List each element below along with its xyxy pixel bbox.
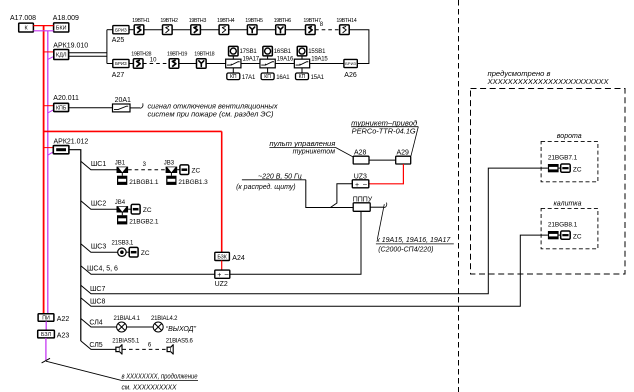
svg-text:“ВЫХОД”: “ВЫХОД” [166, 326, 197, 333]
button 16SB1 [263, 46, 273, 56]
svg-text:КП: КП [230, 74, 237, 80]
svg-text:к 19А15, 19А16, 19А17: к 19А15, 19А16, 19А17 [377, 237, 452, 244]
svg-text:А27: А27 [112, 72, 125, 79]
speaker 21BIAS5.1 [116, 345, 122, 354]
svg-text:БРИЗ: БРИЗ [345, 61, 356, 66]
device 17А1 КП [227, 73, 240, 80]
wire ШС2 [81, 201, 117, 210]
svg-text:JB1: JB1 [115, 161, 126, 167]
wire 19А16-19А15 [275, 63, 294, 65]
svg-text:ZC: ZC [141, 250, 150, 257]
svg-text:19ВТН14: 19ВТН14 [336, 18, 356, 24]
svg-text:21BIAS5.6: 21BIAS5.6 [166, 338, 194, 344]
wire КДЛ-ДПЛС upper stub [69, 52, 107, 54]
device 16А1 КП [261, 73, 274, 80]
underline 220В [242, 179, 306, 181]
svg-text:19ВТН6: 19ВТН6 [274, 18, 292, 24]
svg-text:15А1: 15А1 [311, 75, 325, 81]
detector 19ВТН19 [169, 59, 179, 69]
device А23 БЗЛ [38, 330, 55, 338]
svg-text:БРИЗ: БРИЗ [115, 61, 127, 66]
wire red БЗК-UZ2 [221, 261, 223, 271]
svg-text:19ВТН18: 19ВТН18 [194, 52, 214, 58]
wire JB4-ZC [128, 208, 131, 210]
svg-text:21BGB2.1: 21BGB2.1 [129, 219, 159, 226]
button 17SB1 [229, 46, 239, 56]
svg-text:ШС7: ШС7 [90, 286, 105, 293]
relay module 19А15 [294, 59, 309, 68]
device А17 К [19, 23, 34, 32]
svg-text:КДЛ: КДЛ [56, 53, 67, 59]
underline continuation note [121, 380, 198, 382]
svg-text:19ВТН3: 19ВТН3 [189, 18, 207, 24]
svg-text:21SB3.1: 21SB3.1 [112, 241, 134, 247]
device А18 БКИ [54, 23, 69, 32]
wire magenta branch АРК21 [48, 152, 54, 155]
box 21BGB7.1 [548, 164, 559, 172]
svg-text:21BGB1.1: 21BGB1.1 [129, 179, 159, 186]
wire 19ВТН19-19ВТН18 [179, 63, 197, 65]
device ПППУ [353, 203, 370, 212]
svg-text:21BIAS5.1: 21BIAS5.1 [112, 338, 140, 344]
svg-text:ШС3: ШС3 [91, 244, 106, 251]
svg-text:21BGB7.1: 21BGB7.1 [548, 155, 578, 162]
wire СЛ4 [81, 319, 117, 328]
svg-text:турникет–привод: турникет–привод [351, 119, 417, 127]
relay module 19А16 [260, 59, 275, 68]
svg-text:19А15: 19А15 [311, 57, 328, 63]
detector JB1 [117, 167, 129, 173]
box 21BGB1.1 [117, 176, 127, 185]
svg-text:А17.008: А17.008 [10, 15, 36, 22]
device АРК19 КДЛ [54, 50, 69, 60]
device А29 [396, 156, 411, 164]
detector 19ВТН6 [276, 25, 286, 35]
terminator ZC ШС3 [129, 247, 138, 257]
button 21SB3.1 [118, 248, 126, 256]
detector 19ВТН2 [163, 25, 173, 35]
svg-text:10: 10 [150, 58, 157, 64]
device АРК21 box [53, 146, 69, 154]
svg-text:АРК19.010: АРК19.010 [53, 43, 88, 50]
leader пульт-А28 [335, 147, 353, 157]
wire ДПЛС row1 to 19ВТН3 [172, 29, 191, 31]
wire А28-А29 [369, 159, 396, 161]
button 15SB1 [297, 46, 307, 56]
wire СЛ4 between lamps [127, 326, 153, 328]
wire 20А1 output [130, 107, 140, 109]
wire КДЛ-ДПЛС lower stub [69, 55, 107, 57]
svg-text:АРК21.012: АРК21.012 [54, 139, 89, 146]
svg-text:(к распред. щиту): (к распред. щиту) [236, 183, 296, 191]
wire end tick [42, 358, 50, 363]
wire ШС4 5 6 [81, 266, 215, 275]
wire СЛ5 [81, 341, 116, 350]
svg-text:19ВТН4: 19ВТН4 [217, 18, 235, 24]
detector JB4 [117, 206, 129, 212]
wire to БРИЗ А27 [107, 63, 113, 65]
wire magenta branch КПБ [48, 110, 54, 113]
svg-text:(С2000-СП4/220): (С2000-СП4/220) [378, 246, 433, 253]
svg-text:СЛ5: СЛ5 [89, 342, 102, 349]
leader continuation note [46, 361, 121, 380]
device А24 БЗК [215, 252, 230, 260]
wire ШС bus [69, 150, 81, 341]
underline к 19А15 [376, 243, 454, 245]
box 21BGB1.3 [166, 176, 176, 185]
svg-text:ШС8: ШС8 [90, 299, 105, 306]
svg-text:ворота: ворота [557, 133, 582, 140]
svg-text:19ВТН7: 19ВТН7 [303, 18, 321, 24]
svg-text:PERCo-TTR-04.1G: PERCo-TTR-04.1G [352, 129, 417, 136]
device А20 КПБ [54, 103, 69, 111]
svg-text:турникетом: турникетом [293, 149, 336, 156]
wire 19А17-19А16 [241, 63, 260, 65]
svg-text:21BIAL4.2: 21BIAL4.2 [151, 316, 178, 322]
svg-text:19ВТН1: 19ВТН1 [132, 18, 150, 24]
wire red trunk vertical [43, 26, 45, 314]
svg-text:20А1: 20А1 [115, 97, 131, 104]
wire red branch КПБ [44, 105, 54, 107]
svg-text:ZC: ZC [192, 167, 201, 174]
wire ДПЛС row1 to 19ВТН4 [200, 29, 219, 31]
svg-text:19ВТН28: 19ВТН28 [131, 52, 151, 58]
wire red feeder horizontal [44, 130, 222, 132]
svg-text:–: – [363, 181, 367, 188]
arrow hook 20А1 output [140, 103, 143, 108]
wire magenta К-БКИ [33, 30, 53, 32]
svg-text:в ХХХХХХХХ, продолжение: в ХХХХХХХХ, продолжение [122, 373, 198, 381]
svg-text:БЗЛ: БЗЛ [41, 332, 52, 338]
svg-text:СЛ4: СЛ4 [89, 320, 102, 327]
svg-text:ШС2: ШС2 [91, 201, 106, 208]
svg-text:–: – [225, 271, 229, 278]
wire to БРИЗ А25 [107, 29, 113, 31]
speaker 21BIAS5.6 [167, 345, 173, 354]
svg-text:БЗК: БЗК [217, 254, 227, 260]
wire ДПЛС row1 to 19ВТН6 [257, 29, 276, 31]
wire ДПЛС row1 to 19ВТН5 [229, 29, 248, 31]
detector 19ВТН28 [133, 59, 143, 69]
svg-text:сигнал отключения вентиляционн: сигнал отключения вентиляционных [148, 104, 279, 111]
svg-text:БРИЗ: БРИЗ [115, 27, 127, 32]
wire JB1 stem [121, 173, 123, 176]
svg-text:JB3: JB3 [164, 161, 175, 167]
wire ДПЛС row1 to 19ВТН2 [144, 29, 163, 31]
detector 19ВТН5 [247, 25, 257, 35]
svg-text:А25: А25 [112, 37, 125, 44]
wire JB3 stem [170, 173, 172, 176]
svg-text:предусмотрено в: предусмотрено в [488, 70, 551, 78]
svg-text:калитка: калитка [554, 200, 582, 207]
power unit UZ3 [352, 180, 369, 189]
wire СЛ5 dashed 6 [122, 348, 167, 350]
wire tap to UZ3 [330, 184, 352, 208]
wire 19А15-БРИЗ А26 [310, 63, 344, 65]
svg-text:А23: А23 [57, 333, 70, 340]
wire ворота MK-ZC [559, 167, 561, 169]
device БРИЗ А25 [113, 26, 129, 34]
svg-text:пульт управления: пульт управления [269, 141, 335, 148]
svg-text:ZC: ZC [143, 207, 152, 214]
svg-text:16SB1: 16SB1 [274, 49, 292, 55]
wire red К-БКИ [33, 25, 53, 27]
svg-text:~220 В, 50 Гц: ~220 В, 50 Гц [258, 173, 302, 180]
svg-text:19ВТН5: 19ВТН5 [245, 18, 263, 24]
svg-text:UZ2: UZ2 [215, 281, 228, 288]
svg-text:17А1: 17А1 [242, 75, 256, 81]
device 15А1 КП [296, 73, 309, 80]
terminator ZC ШС2 [131, 204, 140, 214]
wire ДПЛС vertical split [106, 30, 108, 64]
svg-text:А22: А22 [57, 316, 70, 323]
svg-text:19А16: 19А16 [277, 57, 294, 63]
svg-text:15SB1: 15SB1 [308, 49, 326, 55]
device БРИЗ А27 [113, 59, 129, 67]
device БРИЗ А26 [344, 59, 357, 67]
wire ШС1 [81, 161, 117, 170]
wire red feeder vertical [221, 131, 223, 252]
leader к 19А15 [378, 204, 385, 238]
wire JB4 stem [121, 213, 123, 216]
wire magenta trunk vertical [47, 31, 49, 314]
detector 19ВТН14 [340, 25, 350, 35]
box 21BGB8.1 [548, 231, 559, 239]
arrow hook ПППУ output [384, 203, 387, 208]
svg-text:А20.011: А20.011 [53, 95, 79, 102]
wire ШС8 to калитка [81, 235, 548, 306]
svg-text:21BGB1.3: 21BGB1.3 [178, 179, 208, 186]
wire КПБ-20А1 [69, 107, 113, 109]
wire ДПЛС row1 dashed 8 [315, 29, 340, 31]
wire 16SB1-19А16 [267, 56, 269, 59]
relay module 19А17 [226, 59, 241, 68]
device А22 ПИ [38, 314, 54, 322]
svg-text:А26: А26 [344, 72, 357, 79]
wire ДПЛС row1-row2 return [349, 30, 369, 64]
svg-text:КП: КП [299, 74, 306, 80]
svg-text:ШС4, 5, 6: ШС4, 5, 6 [87, 266, 118, 273]
terminator ZC ШС1 [180, 165, 189, 175]
wire ШС7 to ворота [81, 168, 548, 294]
svg-text:19А17: 19А17 [243, 57, 260, 63]
detector JB3 [166, 167, 178, 173]
wire magenta to continuation [45, 338, 47, 361]
wire UZ2-ПППУ [230, 211, 361, 274]
svg-text:А18.009: А18.009 [53, 15, 79, 22]
svg-text:КП: КП [264, 74, 271, 80]
detector 19ВТН3 [191, 25, 201, 35]
dashed box ворота [541, 141, 598, 181]
svg-text:16А1: 16А1 [276, 75, 290, 81]
relay contact 20А1 [113, 104, 131, 112]
svg-text:19ВТН19: 19ВТН19 [167, 52, 187, 58]
svg-text:систем при пожаре (см. раздел: систем при пожаре (см. раздел ЭС) [148, 111, 274, 119]
wire 220В feed [306, 180, 353, 208]
wire 19ВТН18-19А17 [206, 63, 226, 65]
wire JB3-ZC [177, 169, 180, 171]
wire red А29-UZ3 [369, 164, 404, 184]
boundary dashed box предусмотрено [471, 89, 626, 275]
wire 21SB3.1-ZC [126, 251, 129, 253]
wire калитка MK-ZC [559, 234, 561, 236]
box 21BGB2.1 [117, 215, 127, 224]
terminator ZC ворота [561, 164, 571, 172]
svg-text:17SB1: 17SB1 [240, 49, 258, 55]
svg-text:+: + [217, 272, 221, 279]
wire 17SB1-19А17 [232, 56, 234, 59]
wire 19А15-15А1 [301, 68, 303, 73]
svg-text:А24: А24 [232, 255, 245, 262]
svg-text:см. ХХХХХХХХХХ: см. ХХХХХХХХХХ [122, 384, 177, 391]
svg-text:JB4: JB4 [115, 200, 126, 206]
wire 19А17-17А1 [232, 68, 234, 73]
wire А27-19ВТН28 [129, 63, 133, 65]
svg-text:+: + [355, 182, 359, 189]
detector 19ВТН18 [197, 59, 207, 69]
wire red branch АРК21 [44, 147, 54, 149]
device А28 [353, 156, 369, 164]
wire red branch КДЛ [44, 51, 54, 53]
dashed box калитка [541, 208, 598, 248]
svg-text:ХХХХХХХХХХХХХХХХХХХХХХХХ: ХХХХХХХХХХХХХХХХХХХХХХХХ [486, 79, 608, 86]
lamp 21BIAL4.1 [117, 322, 127, 332]
wire 15SB1-19А15 [301, 56, 303, 59]
leader привод-А29 [411, 127, 418, 157]
underline турникет-привод [351, 126, 418, 128]
svg-text:21BIAL4.1: 21BIAL4.1 [114, 316, 141, 322]
underline пульт управления [269, 146, 335, 148]
wire ДПЛС row1 to 19ВТН7 [285, 29, 305, 31]
wire ПППУ output [370, 206, 384, 208]
wire ШС1 dashed 3 [128, 169, 166, 171]
lamp 21BIAL4.2 [153, 322, 163, 332]
svg-text:ПИ: ПИ [42, 315, 50, 321]
wire ДПЛС row2 dashed 10 [143, 63, 169, 65]
svg-text:19ВТН2: 19ВТН2 [160, 18, 178, 24]
svg-text:КПБ: КПБ [56, 105, 67, 111]
power unit UZ2 [215, 270, 230, 279]
detector 19ВТН4 [219, 25, 229, 35]
wire magenta branch КДЛ [48, 56, 54, 59]
svg-text:ZC: ZC [573, 166, 582, 173]
wire magenta ПИ-БЗЛ [45, 321, 47, 330]
terminator ZC калитка [561, 231, 571, 239]
boundary dashed line [458, 0, 460, 392]
wire ШС3 [81, 244, 118, 253]
wire А25-19ВТН1 [129, 29, 133, 31]
svg-text:БКИ: БКИ [56, 25, 67, 31]
svg-text:21BGB8.1: 21BGB8.1 [548, 222, 578, 229]
detector 19ВТН7 [306, 25, 316, 35]
svg-text:ШС1: ШС1 [91, 161, 106, 168]
svg-text:ZC: ZC [573, 234, 582, 241]
wire 19А16-16А1 [267, 68, 269, 73]
detector 19ВТН1 [134, 25, 144, 35]
